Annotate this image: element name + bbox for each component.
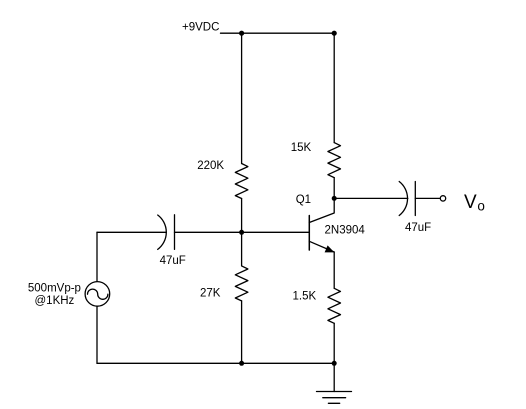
wire base node to transistor base xyxy=(242,231,310,233)
wire 15K bottom to collector node xyxy=(333,178,335,199)
input capacitor straight plate xyxy=(174,215,176,250)
transistor Q1 emitter arrowhead xyxy=(325,245,335,252)
wire 220K bottom to base node xyxy=(241,199,243,233)
svg-text:220K: 220K xyxy=(197,160,224,172)
svg-text:15K: 15K xyxy=(291,142,312,154)
junction dot 27K/bottom rail xyxy=(239,361,244,366)
svg-text:2N3904: 2N3904 xyxy=(325,225,366,237)
wire output cap to terminal xyxy=(415,197,440,199)
svg-text:47uF: 47uF xyxy=(405,222,431,234)
input capacitor curved plate xyxy=(158,215,167,249)
output capacitor straight plate xyxy=(414,182,416,216)
wire emitter to 1.5K top xyxy=(333,252,335,288)
svg-text:500mVp-p: 500mVp-p xyxy=(28,283,81,295)
wire bottom rail xyxy=(97,362,334,364)
wire source bottom riser xyxy=(96,306,98,363)
junction dot base node xyxy=(239,230,244,235)
transistor Q1 emitter lead xyxy=(309,241,334,252)
resistor 1.5K xyxy=(328,288,341,323)
wire rail to 15K top xyxy=(333,33,335,142)
junction dot rail/15K xyxy=(332,31,337,36)
wire rail to 220K top xyxy=(241,33,243,163)
resistor 15K xyxy=(328,143,341,178)
svg-text:47uF: 47uF xyxy=(160,255,186,267)
ground symbol bottom line xyxy=(328,402,339,404)
AC source sine wave xyxy=(88,289,108,299)
svg-text:o: o xyxy=(477,199,485,214)
wire +9VDC top rail xyxy=(221,32,335,34)
wire collector node to output cap xyxy=(334,197,408,199)
junction dot rail/220K xyxy=(239,31,244,36)
svg-text:@1KHz: @1KHz xyxy=(35,295,75,307)
svg-text:1.5K: 1.5K xyxy=(293,290,317,302)
junction dot ground node xyxy=(332,361,337,366)
wire source corner to input cap xyxy=(97,231,166,233)
wire 1.5K bottom to ground node xyxy=(333,323,335,363)
wire source top riser xyxy=(96,232,98,281)
ground stub wire xyxy=(333,363,335,391)
junction dot collector node xyxy=(332,196,337,201)
ground symbol top line xyxy=(317,391,352,393)
resistor 27K xyxy=(235,266,248,301)
wire base node to 27K top xyxy=(241,232,243,266)
transistor Q1 base bar xyxy=(308,216,310,251)
svg-text:Q1: Q1 xyxy=(296,194,311,206)
output terminal open circle xyxy=(440,196,445,201)
wire 27K bottom to ground rail xyxy=(241,301,243,363)
AC source V1 circle xyxy=(85,282,110,307)
resistor 220K xyxy=(235,164,248,199)
wire input cap to base node xyxy=(175,231,242,233)
svg-text:+9VDC: +9VDC xyxy=(182,22,219,34)
svg-text:V: V xyxy=(464,192,477,213)
output capacitor curved plate xyxy=(399,182,407,216)
transistor Q1 collector lead xyxy=(309,198,334,222)
ground symbol middle line xyxy=(323,397,346,399)
svg-text:27K: 27K xyxy=(200,288,221,300)
